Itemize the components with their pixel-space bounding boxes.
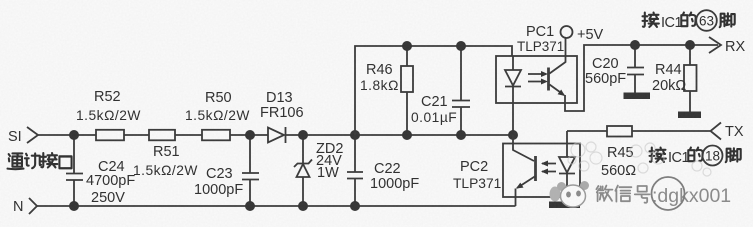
junction RX line / R44	[685, 40, 695, 50]
junction bottom line / C23	[245, 201, 255, 211]
junction top line / PC1 LED cathode / PC2 collector	[508, 130, 518, 140]
PC1 internal LED	[505, 56, 521, 135]
PC2 output phototransistor	[513, 135, 536, 189]
junction top line / C22	[350, 130, 360, 140]
wire R45 to TX	[632, 130, 710, 132]
label 接IC1的(63)脚 to IC1 pin 63	[643, 10, 735, 31]
capacitor C22	[347, 135, 363, 206]
resistor R45	[567, 130, 607, 132]
power +5V terminal	[561, 26, 573, 38]
junction bottom line / C22	[350, 201, 360, 211]
ground bar below C20	[624, 93, 651, 100]
wire top signal line SI to PC1	[38, 134, 513, 136]
ground bar below PC2 LED	[549, 202, 580, 209]
wire PC1 emitter to RX line	[565, 45, 718, 111]
junction top line / C21	[456, 130, 466, 140]
watermark mascot face	[550, 181, 590, 207]
node N input connector chevron	[29, 198, 37, 214]
junction top line / ZD2	[298, 130, 308, 140]
wire PC2 emitter to bottom return line	[515, 189, 517, 207]
junction top line / C23	[245, 130, 255, 140]
node TX input arrow	[711, 123, 722, 140]
PC1 output phototransistor	[549, 38, 566, 96]
PC1 light coupling arrows	[528, 71, 548, 85]
capacitor C24	[66, 135, 83, 206]
node SI input connector chevron	[27, 127, 38, 143]
junction upper rail / R46	[402, 41, 412, 51]
opto-coupler PC2 package box	[503, 144, 580, 198]
PC2 light coupling arrows	[541, 161, 556, 175]
watermark text 微信号:dgkx001	[596, 185, 731, 207]
wire bottom return line N	[37, 205, 516, 207]
scan noise overlay	[0, 0, 1, 1]
junction bottom line / C24	[69, 201, 79, 211]
label 通讯接口 (communication port)	[8, 153, 72, 169]
resistor R51	[149, 130, 175, 141]
node RX output arrow	[709, 37, 721, 53]
opto-coupler PC1 package box	[496, 56, 577, 103]
zener diode ZD2	[294, 135, 312, 206]
resistor R46	[406, 46, 408, 135]
junction bottom line / ZD2	[298, 201, 308, 211]
resistor R50	[202, 130, 230, 141]
PC2 internal LED	[559, 131, 575, 202]
junction top line / C24	[69, 130, 79, 140]
junction top line / R46	[402, 130, 412, 140]
junction upper rail / C21	[456, 41, 466, 51]
capacitor C20	[627, 45, 644, 93]
wire upper rail to PC1 LED anode	[355, 46, 512, 135]
capacitor C21	[452, 46, 470, 135]
junction RX line / C20	[630, 40, 640, 50]
diode D13	[268, 127, 286, 143]
watermark circle stamp	[652, 177, 685, 210]
watermark flower scribbles	[568, 142, 711, 176]
resistor R52	[96, 130, 124, 141]
label 接IC1的(18)脚 to IC1 pin 18	[650, 146, 741, 167]
ground bar below R44	[678, 112, 701, 119]
capacitor C23	[242, 135, 259, 206]
resistor R44	[689, 45, 691, 112]
